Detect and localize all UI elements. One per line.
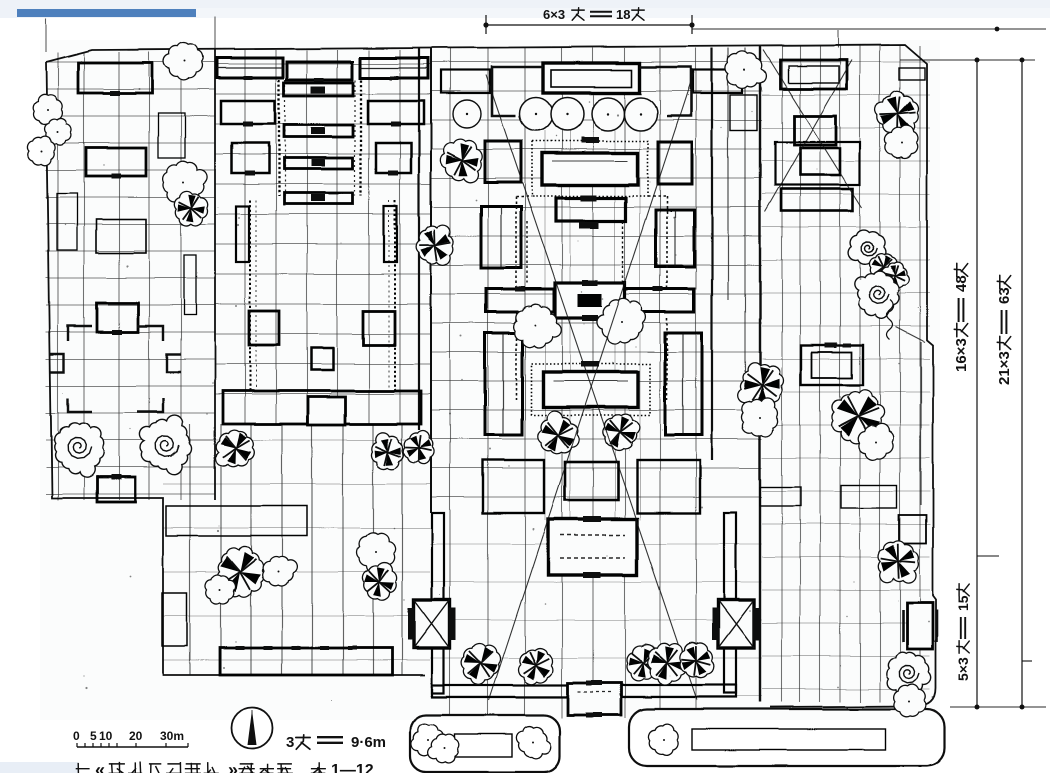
tree row left 2 xyxy=(45,119,71,145)
tree c2 west 1 xyxy=(163,161,207,208)
svg-text:3: 3 xyxy=(286,734,294,751)
top light blue strip xyxy=(0,0,1050,18)
flank 1 east xyxy=(658,142,692,184)
southwest terrace xyxy=(410,715,560,772)
tree circles row xyxy=(520,98,553,131)
terrace tree 2 xyxy=(516,726,551,758)
forecourt south wall xyxy=(432,685,736,697)
central north hall xyxy=(543,63,640,93)
left thin court L4 xyxy=(57,193,77,250)
scan speckles xyxy=(63,56,934,700)
terrace tree 1 xyxy=(411,724,444,756)
veranda circuit lower court xyxy=(515,318,517,400)
tree right 3 xyxy=(848,230,886,264)
left gate L9 xyxy=(97,477,135,502)
tree right court 4 xyxy=(858,423,894,459)
c2 east side room xyxy=(384,206,397,262)
left hall L5 xyxy=(96,219,146,253)
main hall 2 platform xyxy=(531,364,650,415)
dim bottom hline xyxy=(950,706,1046,708)
c2 west side room xyxy=(236,206,249,262)
svg-text:21×3: 21×3 xyxy=(996,351,1013,385)
flank 2 east xyxy=(656,210,694,267)
forecourt west wall xyxy=(432,513,444,693)
right gate south xyxy=(907,603,933,649)
mid row west hall xyxy=(486,289,554,312)
right small rect top xyxy=(899,68,925,80)
tree south court 2 xyxy=(206,575,236,604)
svg-text:30m: 30m xyxy=(160,729,184,743)
tree forecourt 3 xyxy=(626,644,662,681)
right complex X xyxy=(763,50,862,208)
corridor rect xyxy=(730,95,757,130)
right shrine xyxy=(801,345,863,385)
c2 hall D xyxy=(284,193,353,204)
blue progress bar xyxy=(17,9,196,17)
tree right 4 xyxy=(869,254,897,281)
right platform 2 xyxy=(841,485,897,508)
svg-text:48: 48 xyxy=(953,275,970,292)
terrace tree 3 xyxy=(648,724,678,755)
grid lines xyxy=(46,46,930,718)
corridor walls xyxy=(711,48,713,460)
left corner walls xyxy=(50,326,181,412)
tree forecourt 2 xyxy=(519,648,553,684)
flank 3 east xyxy=(665,333,702,435)
bottom-left light blue strip xyxy=(0,762,78,773)
svg-text:15: 15 xyxy=(955,595,971,611)
tree right south 1 xyxy=(878,540,919,583)
tree right 5 xyxy=(881,262,909,289)
swirl tree south court 1 xyxy=(217,546,264,597)
c2 north row east hall xyxy=(360,58,428,78)
tree right court 5 xyxy=(854,271,899,319)
flank 1 west xyxy=(485,141,521,182)
veranda circuit upper court xyxy=(515,196,517,289)
scan paper tint xyxy=(40,40,940,720)
flank 2 west xyxy=(481,206,521,268)
c2 flank B west xyxy=(232,143,269,173)
svg-text:1—12: 1—12 xyxy=(331,762,374,773)
c2 flank A east xyxy=(368,101,424,124)
tree central ct 3 xyxy=(538,411,579,454)
left corridor strip L6 xyxy=(184,255,196,315)
tree right court 2 xyxy=(741,398,777,436)
south connector hall xyxy=(565,462,618,500)
svg-text:0: 0 xyxy=(73,729,80,743)
tree forecourt 5 xyxy=(680,643,714,678)
svg-text:5×3: 5×3 xyxy=(955,657,971,681)
tree c2 court 2 xyxy=(372,432,404,469)
svg-text:63: 63 xyxy=(996,287,1013,304)
central north wing east xyxy=(693,70,742,93)
svg-text:10: 10 xyxy=(99,729,113,743)
c2 axis corridor xyxy=(278,80,280,196)
tree row left 3 xyxy=(28,136,56,165)
tree c2 west 2 xyxy=(174,191,207,226)
c2 hall A xyxy=(284,83,353,96)
tree terrace west xyxy=(428,734,460,763)
top auxiliary dim line xyxy=(692,28,1046,30)
survey diagonal X xyxy=(486,75,697,700)
tree c2 court 1 xyxy=(216,430,254,466)
svg-text:18: 18 xyxy=(616,7,630,22)
mid row east hall xyxy=(624,289,694,312)
south wing west xyxy=(483,460,544,513)
tree central ct 4 xyxy=(603,414,640,450)
right complex platform xyxy=(775,142,860,185)
right complex north hall xyxy=(780,60,847,89)
left hall L1 xyxy=(78,63,152,93)
east gate tower xyxy=(718,600,754,648)
svg-text:5: 5 xyxy=(90,729,97,743)
middle hall xyxy=(556,198,626,221)
tree right gate xyxy=(725,51,765,88)
tree right court 3 xyxy=(832,390,884,445)
c2 north row center hall xyxy=(287,62,352,80)
tree south court 4 xyxy=(357,532,396,573)
c2 hall C xyxy=(284,158,353,169)
tree right court 1 xyxy=(738,363,784,408)
tree south court 5 xyxy=(362,563,396,601)
tree right south 3 xyxy=(894,684,927,717)
svg-text:16×3: 16×3 xyxy=(953,338,970,372)
tree central ct 2 xyxy=(597,298,645,344)
tree right 2 xyxy=(885,126,918,159)
left hall L2 xyxy=(86,148,146,176)
compass xyxy=(232,708,273,749)
c2 north row west hall xyxy=(217,58,283,78)
tree forecourt 1 xyxy=(462,644,501,685)
southeast terrace xyxy=(629,709,945,766)
right complex mid square xyxy=(794,116,836,145)
west gate tower xyxy=(414,600,450,648)
left thin court L3 xyxy=(158,113,185,158)
curl tree left court 2 xyxy=(139,415,191,475)
main hall 1 platform xyxy=(532,141,648,196)
right rect mid xyxy=(899,515,926,543)
south gate xyxy=(568,683,621,715)
tree forecourt 4 xyxy=(647,643,688,685)
right complex south block xyxy=(781,189,853,211)
c2 hall B xyxy=(284,125,353,137)
c2 west hall xyxy=(249,311,279,345)
curl tree left court 1 xyxy=(54,423,104,477)
left hall L7 xyxy=(97,303,138,332)
c2 flank A west xyxy=(221,101,275,124)
svg-text:«: « xyxy=(95,760,105,773)
right edge step xyxy=(896,327,925,342)
flank 3 west xyxy=(485,333,522,435)
grid extender lines above plan xyxy=(45,18,47,52)
tree top between sections xyxy=(164,42,204,79)
tree south court 3 xyxy=(262,557,297,586)
axis corridor mid xyxy=(526,221,528,283)
c2 far south hall xyxy=(220,648,392,675)
tree central ct 1 xyxy=(513,304,561,348)
tree right 1 xyxy=(876,91,919,137)
svg-text:9·6m: 9·6m xyxy=(351,734,386,751)
caption (clipped at bottom) xyxy=(76,763,91,778)
c2 flank B east xyxy=(376,143,411,173)
c2 court platform xyxy=(166,506,307,536)
tree row left 1 xyxy=(33,94,62,124)
c2 south gate xyxy=(308,397,345,425)
right dim line A xyxy=(976,60,978,707)
south gate hall xyxy=(548,519,637,575)
c2 court side strip xyxy=(162,593,187,646)
tree c2 court 3 xyxy=(404,431,434,465)
central north west L-wall xyxy=(492,67,543,116)
c2 central shrine xyxy=(311,348,333,370)
c2 south hall xyxy=(223,391,421,424)
c2 lower court corridor xyxy=(249,200,251,392)
svg-text:6×3: 6×3 xyxy=(543,7,565,22)
tree central west 1 xyxy=(440,139,482,182)
forecourt east wall xyxy=(724,513,736,693)
central north wing west xyxy=(441,70,490,93)
c2 east hall xyxy=(363,311,395,345)
site boundary outline xyxy=(46,45,936,707)
svg-text:20: 20 xyxy=(129,729,143,743)
dim top hline xyxy=(900,59,1035,61)
south wing east xyxy=(637,460,700,513)
central north east L-wall xyxy=(640,67,691,116)
right dim line B xyxy=(1021,60,1023,707)
mid row center gate xyxy=(555,283,625,318)
tree right south 2 xyxy=(886,652,931,695)
hedge squiggle xyxy=(887,300,893,340)
tree central west 2 xyxy=(416,225,453,265)
right platform 1 xyxy=(760,487,801,506)
svg-text:»: » xyxy=(228,760,238,773)
top dimension line 6x3zhang=18zhang xyxy=(486,24,692,26)
